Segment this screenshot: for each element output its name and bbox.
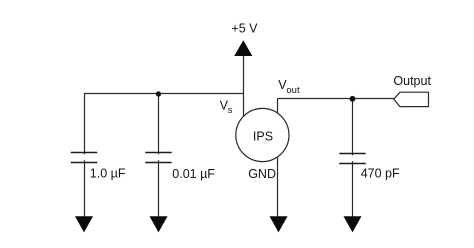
svg-text:1.0 µF: 1.0 µF — [90, 167, 126, 181]
svg-text:out: out — [286, 85, 300, 96]
svg-text:0.01 µF: 0.01 µF — [172, 167, 215, 181]
svg-text:GND: GND — [248, 167, 276, 181]
svg-text:+5 V: +5 V — [231, 22, 258, 36]
svg-text:s: s — [228, 105, 233, 116]
svg-text:470 pF: 470 pF — [361, 167, 400, 181]
svg-text:IPS: IPS — [253, 130, 273, 144]
svg-text:Output: Output — [393, 74, 431, 88]
